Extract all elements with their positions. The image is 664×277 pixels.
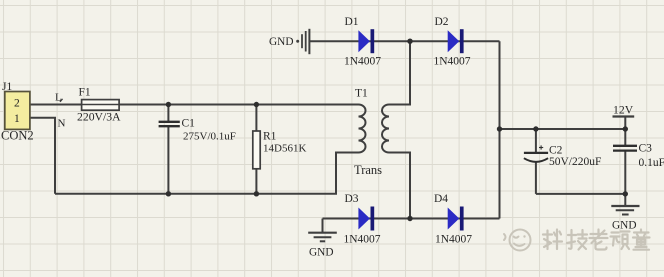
svg-text:GND: GND bbox=[309, 247, 333, 259]
node: R1 top bbox=[254, 102, 259, 107]
svg-text:275V/0.1uF: 275V/0.1uF bbox=[183, 131, 236, 143]
wire C3 vertical bbox=[624, 129, 626, 145]
svg-text:N: N bbox=[58, 117, 66, 129]
diode D1 body bbox=[358, 30, 370, 52]
svg-text:R1: R1 bbox=[263, 131, 277, 143]
node: 12V / C3 top bbox=[623, 126, 628, 131]
diode D2 body bbox=[448, 30, 460, 52]
wire secondary top to bridge bbox=[389, 41, 410, 104]
svg-text:GND: GND bbox=[269, 36, 293, 48]
ground (top-left, rotated) bbox=[269, 29, 309, 54]
diode D3 body bbox=[358, 208, 370, 230]
wire C2 vertical bbox=[535, 129, 537, 152]
diode D2 bbox=[434, 16, 471, 68]
wire gnd stem bottom-left bbox=[322, 219, 324, 233]
node: R1 bottom bbox=[254, 191, 259, 196]
svg-text:12V: 12V bbox=[613, 104, 634, 117]
node: C2 top bbox=[533, 126, 538, 131]
svg-text:1: 1 bbox=[14, 113, 20, 125]
node: C1 bottom bbox=[166, 191, 171, 196]
node: secondary top / D1-D2 bbox=[407, 39, 412, 44]
diode D4 bbox=[434, 193, 472, 246]
watermark logo bbox=[504, 230, 531, 251]
svg-text:T1: T1 bbox=[355, 88, 368, 100]
watermark text 科技老顽童 bbox=[543, 230, 650, 250]
secondary winding bbox=[382, 105, 389, 153]
wire top diode rail bbox=[310, 40, 500, 42]
svg-text:D4: D4 bbox=[434, 193, 448, 205]
svg-text:1N4007: 1N4007 bbox=[344, 56, 381, 68]
connector J1 bbox=[1, 81, 34, 143]
C2 plates bbox=[524, 152, 548, 154]
node L label bbox=[55, 92, 63, 104]
transformer T1 bbox=[354, 88, 389, 178]
svg-text:C1: C1 bbox=[182, 118, 196, 130]
capacitor C1 bbox=[159, 118, 236, 143]
node: secondary bottom / D3-D4 bbox=[407, 216, 412, 221]
老 bbox=[590, 230, 608, 244]
wire L: J1 pin2 to fuse bbox=[30, 104, 82, 106]
diode D1 bbox=[344, 16, 381, 68]
svg-text:D1: D1 bbox=[345, 16, 359, 28]
svg-text:C3: C3 bbox=[639, 143, 653, 155]
顽 bbox=[611, 233, 620, 246]
wire bottom diode rail bbox=[323, 218, 500, 220]
fuse F1 bbox=[77, 87, 121, 124]
diode D3 bbox=[344, 193, 381, 246]
svg-text:D3: D3 bbox=[345, 193, 359, 205]
svg-text:F1: F1 bbox=[79, 87, 91, 99]
科 bbox=[543, 231, 552, 250]
svg-text:0.1uF: 0.1uF bbox=[639, 157, 664, 169]
ground (bottom-left) bbox=[308, 233, 337, 259]
svg-text:14D561K: 14D561K bbox=[263, 143, 306, 155]
node: right rail output bbox=[497, 126, 502, 131]
ground (bottom-right) bbox=[611, 206, 639, 232]
C3 plates bbox=[613, 145, 637, 147]
svg-text:J1: J1 bbox=[2, 81, 12, 93]
resistor R1 (varistor) bbox=[253, 131, 307, 169]
svg-text:C2: C2 bbox=[549, 145, 563, 157]
node N label bbox=[58, 117, 66, 129]
capacitor C3 bbox=[613, 143, 664, 170]
wire C2 bottom to gnd node bbox=[536, 193, 625, 195]
wire N: J1 pin1 right then down bbox=[30, 118, 55, 194]
wire N rail bottom bbox=[55, 153, 359, 194]
svg-text:1N4007: 1N4007 bbox=[434, 56, 471, 68]
svg-text:GND: GND bbox=[612, 220, 636, 232]
wire C1 vertical bbox=[167, 105, 169, 122]
power 12V bbox=[613, 104, 635, 117]
wire L: fuse to transformer primary top bbox=[119, 104, 358, 106]
svg-text:D2: D2 bbox=[435, 16, 449, 28]
capacitor C2 (electrolytic) bbox=[524, 145, 602, 169]
primary winding bbox=[359, 105, 366, 153]
wire 12V stub bbox=[624, 117, 626, 129]
svg-text:1N4007: 1N4007 bbox=[344, 234, 381, 246]
wire R1 vertical bbox=[255, 105, 257, 132]
wire right rail vertical bbox=[499, 41, 501, 218]
wire secondary bottom to bridge bbox=[389, 153, 410, 219]
svg-text:50V/220uF: 50V/220uF bbox=[549, 156, 601, 168]
node: C3 bottom / gnd bbox=[623, 191, 628, 196]
svg-text:CON2: CON2 bbox=[1, 129, 34, 143]
技 bbox=[567, 230, 576, 249]
童 bbox=[633, 230, 650, 238]
svg-text:220V/3A: 220V/3A bbox=[77, 111, 121, 124]
svg-text:2: 2 bbox=[14, 98, 20, 110]
diode D4 body bbox=[448, 208, 460, 230]
node: fuse/C1 top bbox=[166, 102, 171, 107]
svg-text:1N4007: 1N4007 bbox=[435, 234, 472, 246]
power bar 12V bbox=[613, 115, 635, 117]
wire output 12V rail bbox=[500, 128, 626, 130]
C2 polarity + bbox=[539, 147, 543, 149]
svg-text:Trans: Trans bbox=[354, 163, 382, 177]
